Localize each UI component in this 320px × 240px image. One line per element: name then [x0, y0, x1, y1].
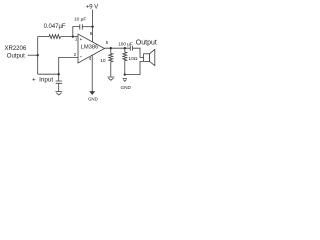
svg-text:GND: GND [88, 97, 98, 102]
ground G2 [90, 91, 95, 94]
resistor R2 10 ohm vertical [109, 48, 113, 76]
node C junction dot on +9V rail [91, 26, 93, 28]
svg-text:+9 V: +9 V [86, 5, 99, 11]
svg-text:10: 10 [100, 58, 106, 64]
capacitor C2 input coupling [56, 81, 62, 83]
node D junction dot [58, 73, 60, 75]
svg-text:5: 5 [106, 40, 109, 45]
svg-text:+ Input: + Input [32, 77, 53, 84]
node E junction dot [110, 47, 112, 49]
speaker LS1 box [144, 54, 150, 62]
svg-text:GND: GND [121, 85, 132, 90]
pin 4 wire down to ground [91, 55, 93, 91]
wire capacitor C3 to speaker [133, 48, 144, 57]
ground G3 [107, 77, 114, 80]
resistor R1 0.047uF series element [49, 35, 61, 39]
resistor R3 10 ohm vertical [123, 48, 127, 74]
svg-text:XR2206: XR2206 [5, 46, 27, 52]
+9V supply rail vertical [92, 10, 94, 42]
svg-text:1: 1 [75, 37, 78, 42]
wire from XR2206 Output label to node A [28, 54, 38, 56]
svg-text:10Ω: 10Ω [128, 56, 137, 62]
node A junction dot [37, 54, 39, 56]
wire node D down to capacitor C2 [58, 74, 60, 81]
svg-text:4: 4 [89, 56, 92, 61]
ground G1 [55, 92, 62, 95]
wire node B up and right to capacitor C1 [73, 27, 80, 37]
svg-text:0.047µF: 0.047µF [44, 24, 66, 30]
wire speaker return to ground node G [125, 61, 144, 74]
wire vertical from node A down to +Input row [37, 55, 39, 74]
wire capacitor C1 to +9V rail [82, 26, 92, 28]
svg-text:Output: Output [136, 40, 157, 47]
ground G4 [123, 79, 127, 82]
pin 2 wire stub to input network [59, 57, 78, 74]
svg-text:100 µF: 100 µF [118, 41, 133, 46]
svg-text:6: 6 [90, 31, 93, 36]
wire vertical from node A up to resistor row [37, 37, 39, 56]
wire horizontal to resistor R1 [38, 36, 49, 38]
wire +Input row horizontal [38, 73, 59, 75]
svg-text:10 µF: 10 µF [74, 16, 86, 22]
op-amp U1 LM386 triangle [78, 34, 105, 63]
speaker LS1 horn [149, 49, 154, 65]
capacitor C1 10uF [80, 24, 83, 29]
wire resistor R1 to op-amp input [61, 36, 78, 38]
svg-text:2: 2 [74, 52, 77, 57]
plus sign at pin3 input [80, 38, 82, 40]
minus sign at pin2 input [80, 56, 82, 58]
node G junction dot [124, 73, 126, 75]
node B junction dot (pin3 node) [72, 35, 74, 37]
svg-text:Output: Output [7, 53, 25, 59]
wire output from pin 5 [105, 47, 131, 49]
capacitor C3 100uF [130, 46, 132, 51]
wire capacitor C2 to ground [58, 83, 60, 91]
svg-text:LM386: LM386 [81, 44, 99, 50]
node F junction dot [124, 47, 126, 49]
